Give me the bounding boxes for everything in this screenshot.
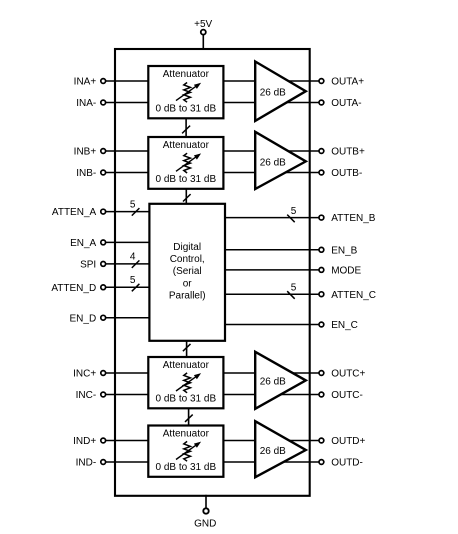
pin OUTB- [319, 168, 362, 179]
pin IND- [76, 458, 106, 469]
wire ATTEN_A pin to digital control [106, 211, 152, 213]
svg-text:26 dB: 26 dB [260, 446, 286, 457]
bus slash ATTEN_D [132, 284, 140, 292]
wire SPI pin to digital control [106, 263, 152, 265]
svg-text:INA-: INA- [76, 98, 96, 109]
svg-text:Digital: Digital [173, 242, 201, 253]
attenuator D block [148, 426, 223, 477]
svg-text:0 dB to 31 dB: 0 dB to 31 dB [156, 104, 217, 115]
wire op-amp D to OUTD+ pin [278, 440, 319, 442]
wire INB+ pin to attenuator B [106, 150, 151, 152]
svg-text:INC-: INC- [76, 390, 97, 401]
wire op-amp C to OUTC- pin [278, 394, 319, 396]
bus width label 4 (SPI) [130, 252, 136, 263]
wire INC+ pin to attenuator C [106, 372, 151, 374]
svg-text:Attenuator: Attenuator [163, 69, 210, 80]
svg-text:+5V: +5V [194, 19, 212, 30]
svg-text:Attenuator: Attenuator [163, 429, 210, 440]
pin ATTEN_A [52, 207, 106, 218]
svg-text:ATTEN_C: ATTEN_C [331, 290, 376, 301]
svg-text:5: 5 [291, 206, 297, 217]
wire digital control to MODE pin [223, 269, 319, 271]
wire INA- pin to attenuator A [106, 102, 151, 104]
svg-text:EN_D: EN_D [70, 313, 97, 324]
pin ATTEN_C [319, 290, 376, 301]
pin IND+ [73, 436, 105, 447]
wire op-amp A to OUTA- pin [278, 102, 319, 104]
power terminal +5V [194, 19, 212, 50]
wire INB- pin to attenuator B [106, 172, 151, 174]
op-amp C (26 dB amplifier) [255, 352, 306, 409]
svg-text:OUTB-: OUTB- [331, 168, 362, 179]
pin OUTA- [319, 98, 362, 109]
svg-text:(Serial: (Serial [173, 266, 202, 277]
wire bus attenuator A to attenuator B [185, 117, 187, 138]
svg-text:OUTB+: OUTB+ [331, 147, 365, 158]
bus width label 5 (ATTEN_D) [130, 275, 136, 286]
svg-text:GND: GND [194, 518, 216, 529]
digital control block U_CTRL [149, 204, 225, 341]
bus width label 5 (ATTEN_A) [130, 199, 136, 210]
wire EN_A pin to digital control [106, 241, 152, 243]
attenuator C variable-attenuator symbol [176, 373, 201, 393]
wire attenuator D to op-amp D (+) [221, 440, 280, 442]
op-amp B (26 dB amplifier) [255, 132, 306, 189]
svg-text:EN_C: EN_C [331, 320, 358, 331]
svg-text:MODE: MODE [331, 266, 361, 277]
svg-text:ATTEN_A: ATTEN_A [52, 207, 97, 218]
svg-text:IND+: IND+ [73, 436, 96, 447]
op-amp A (26 dB amplifier) [255, 62, 306, 121]
svg-text:26 dB: 26 dB [260, 158, 286, 169]
wire IND+ pin to attenuator D [106, 440, 151, 442]
pin INB+ [74, 147, 106, 158]
svg-text:OUTA+: OUTA+ [331, 77, 364, 88]
pin EN_B [319, 245, 358, 256]
svg-text:5: 5 [291, 282, 297, 293]
svg-text:SPI: SPI [80, 260, 96, 271]
svg-text:0 dB to 31 dB: 0 dB to 31 dB [156, 462, 217, 473]
pin OUTD- [319, 458, 363, 469]
pin INA- [76, 98, 105, 109]
bus slash SPI [132, 260, 140, 268]
svg-text:OUTC+: OUTC+ [331, 369, 365, 380]
wire op-amp D to OUTD- pin [278, 461, 319, 463]
pin OUTA+ [319, 77, 364, 88]
bus slash B-control [183, 194, 191, 201]
svg-text:OUTD-: OUTD- [331, 458, 363, 469]
wire digital control to ATTEN_C pin [223, 293, 319, 295]
wire digital control to EN_B pin [223, 249, 319, 251]
wire attenuator B to op-amp B (+) [221, 150, 280, 152]
svg-text:0 dB to 31 dB: 0 dB to 31 dB [156, 394, 217, 405]
svg-text:Parallel): Parallel) [169, 291, 206, 302]
pin OUTB+ [319, 147, 365, 158]
wire attenuator C to op-amp C (+) [221, 372, 280, 374]
bus slash control-C [183, 344, 191, 351]
pin INB- [76, 168, 105, 179]
svg-text:OUTD+: OUTD+ [331, 436, 365, 447]
svg-text:26 dB: 26 dB [260, 377, 286, 388]
wire attenuator B to op-amp B (-) [221, 172, 280, 174]
wire bus attenuator C to attenuator D [188, 407, 190, 426]
wire bus digital control to attenuator C [186, 340, 188, 358]
svg-text:IND-: IND- [76, 458, 97, 469]
svg-text:ATTEN_D: ATTEN_D [51, 283, 96, 294]
bus width label 5 (ATTEN_B) [291, 206, 297, 217]
wire EN_D pin to digital control [106, 317, 152, 319]
svg-text:INB-: INB- [76, 168, 96, 179]
wire op-amp C to OUTC+ pin [278, 372, 319, 374]
attenuator D variable-attenuator symbol [176, 441, 201, 461]
pin MODE [319, 266, 362, 277]
pin ATTEN_D [51, 283, 105, 294]
svg-text:Attenuator: Attenuator [163, 140, 210, 151]
pin INC- [76, 390, 106, 401]
svg-text:4: 4 [130, 252, 136, 263]
pin EN_C [319, 320, 358, 331]
svg-text:or: or [183, 278, 193, 289]
attenuator A block [148, 66, 223, 118]
bus slash ATTEN_C [287, 291, 295, 299]
IC package outline [115, 49, 310, 496]
bus width label 5 (ATTEN_C) [291, 282, 297, 293]
wire digital control to EN_C pin [223, 324, 319, 326]
wire attenuator D to op-amp D (-) [221, 461, 280, 463]
ground terminal GND [194, 495, 216, 530]
pin SPI [80, 260, 106, 271]
wire IND- pin to attenuator D [106, 461, 151, 463]
attenuator B variable-attenuator symbol [176, 153, 201, 173]
svg-text:ATTEN_B: ATTEN_B [331, 213, 376, 224]
svg-text:EN_A: EN_A [70, 238, 96, 249]
wire attenuator A to op-amp A (+) [221, 80, 280, 82]
wire attenuator A to op-amp A (-) [221, 102, 280, 104]
attenuator C block [148, 357, 223, 408]
pin OUTC+ [319, 369, 366, 380]
wire INA+ pin to attenuator A [106, 80, 151, 82]
bus slash ATTEN_A [132, 208, 140, 216]
pin INA+ [74, 77, 106, 88]
pin OUTC- [319, 390, 363, 401]
bus slash A-B [182, 126, 190, 134]
bus slash C-D [185, 415, 193, 422]
pin EN_D [70, 313, 106, 324]
attenuator B block [148, 137, 223, 189]
pin INC+ [73, 369, 105, 380]
pin OUTD+ [319, 436, 366, 447]
svg-text:0 dB to 31 dB: 0 dB to 31 dB [156, 174, 217, 185]
wire op-amp B to OUTB- pin [278, 172, 319, 174]
op-amp D (26 dB amplifier) [255, 421, 306, 477]
wire INC- pin to attenuator C [106, 394, 151, 396]
svg-text:Control,: Control, [170, 254, 205, 265]
wire op-amp B to OUTB+ pin [278, 150, 319, 152]
svg-text:INA+: INA+ [74, 77, 97, 88]
wire bus attenuator B to digital control [185, 188, 187, 205]
svg-text:OUTC-: OUTC- [331, 390, 363, 401]
svg-text:INC+: INC+ [73, 369, 96, 380]
svg-text:Attenuator: Attenuator [163, 360, 210, 371]
wire ATTEN_D pin to digital control [106, 286, 152, 288]
svg-text:26 dB: 26 dB [260, 87, 286, 98]
wire attenuator C to op-amp C (-) [221, 394, 280, 396]
wire digital control to ATTEN_B pin [223, 217, 319, 219]
svg-text:EN_B: EN_B [331, 245, 357, 256]
svg-text:OUTA-: OUTA- [331, 98, 361, 109]
bus slash ATTEN_B [287, 215, 295, 223]
svg-text:INB+: INB+ [74, 147, 97, 158]
pin EN_A [70, 238, 106, 249]
attenuator A variable-attenuator symbol [176, 83, 201, 103]
wire op-amp A to OUTA+ pin [278, 80, 319, 82]
pin ATTEN_B [319, 213, 376, 224]
svg-text:5: 5 [130, 275, 136, 286]
svg-text:5: 5 [130, 199, 136, 210]
